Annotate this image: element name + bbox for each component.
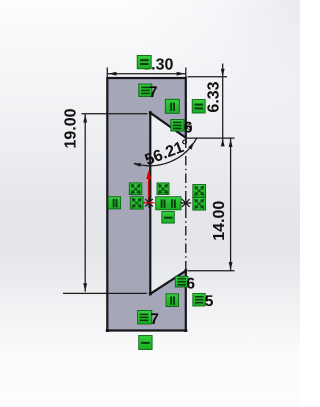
svg-text:7: 7 [149, 84, 158, 101]
svg-text:5: 5 [205, 293, 214, 310]
svg-text:19.00: 19.00 [62, 108, 79, 148]
svg-text:6.33: 6.33 [205, 81, 222, 112]
svg-text:6: 6 [184, 120, 193, 137]
svg-text:7: 7 [150, 311, 159, 328]
svg-text:14.00: 14.00 [211, 201, 228, 241]
svg-text:6: 6 [186, 275, 195, 292]
